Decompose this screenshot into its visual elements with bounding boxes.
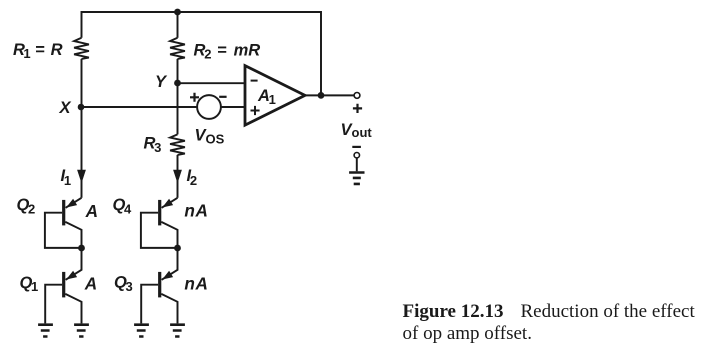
svg-text:R1=R: R1=R <box>13 41 63 61</box>
node output junction <box>318 92 325 99</box>
svg-text:A: A <box>84 273 97 293</box>
wire Y down to R3 <box>177 83 179 134</box>
svg-text:R2=mR: R2=mR <box>194 42 261 62</box>
svg-text:nA: nA <box>184 201 208 221</box>
node X <box>78 104 85 111</box>
op-amp plus marking <box>251 106 260 115</box>
wire left rail R1 to X <box>81 59 83 107</box>
svg-text:Q1: Q1 <box>20 274 39 294</box>
VOS plus sign <box>190 93 199 102</box>
svg-text:Q2: Q2 <box>17 196 36 216</box>
resistor R1 <box>74 38 89 59</box>
svg-text:X: X <box>59 99 72 117</box>
plus sign output <box>353 104 362 113</box>
current arrow I2 <box>173 170 182 184</box>
wire minus terminal to ground <box>356 158 358 171</box>
svg-text:I1: I1 <box>61 167 72 188</box>
wire op-amp output <box>305 94 354 96</box>
svg-text:Q4: Q4 <box>113 196 132 216</box>
svg-text:nA: nA <box>184 273 208 293</box>
svg-text:A1: A1 <box>257 87 276 107</box>
svg-text:I2: I2 <box>187 167 198 188</box>
ground Q3 collector <box>170 323 185 337</box>
wire top rail <box>82 12 322 95</box>
wire X down to Q2 emitter <box>81 107 83 198</box>
svg-text:A: A <box>85 201 98 221</box>
terminal Vout minus <box>354 153 359 158</box>
svg-text:Vout: Vout <box>341 121 373 140</box>
svg-text:Y: Y <box>155 73 168 91</box>
op-amp minus marking <box>251 80 258 82</box>
wire R3 down to Q4 emitter <box>177 155 179 198</box>
ground Q3 base <box>134 323 149 337</box>
node top junction <box>174 9 181 16</box>
svg-text:Q3: Q3 <box>114 274 133 294</box>
current arrow I1 <box>77 170 86 184</box>
caption Figure 12.13 <box>403 301 701 346</box>
node Y <box>174 80 181 87</box>
ground Q1 base <box>38 323 53 337</box>
svg-text:VOS: VOS <box>195 126 225 146</box>
wire Y to op-amp inverting input <box>178 82 246 84</box>
wire VOS to op-amp noninverting input <box>221 106 245 108</box>
transistor Q1 <box>45 248 81 323</box>
ground at Vout <box>349 171 364 185</box>
ground Q1 collector <box>74 323 89 337</box>
transistor Q4 <box>141 198 178 248</box>
resistor R2 <box>170 38 185 59</box>
terminal Vout plus <box>354 93 360 99</box>
node Q4-Q3 junction <box>174 245 181 252</box>
transistor Q3 <box>141 248 177 323</box>
VOS minus sign <box>219 96 226 98</box>
transistor Q2 <box>45 198 82 248</box>
svg-text:R3: R3 <box>144 135 162 155</box>
op-amp A1 <box>245 66 305 126</box>
wire right rail top to R2 <box>177 12 179 38</box>
wire R2 to Y <box>177 59 179 83</box>
resistor R3 <box>170 134 185 155</box>
wire X row to VOS <box>82 106 198 108</box>
minus sign output <box>352 146 361 148</box>
node Q2-Q1 junction <box>78 245 85 252</box>
voltage source VOS <box>197 95 221 119</box>
